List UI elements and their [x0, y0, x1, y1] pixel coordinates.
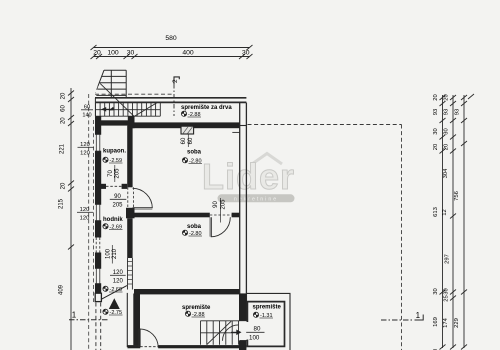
- svg-text:20: 20: [433, 94, 439, 100]
- wall hodnik/soba2 vertical: [127, 218, 132, 258]
- dashed roof outline right: [248, 125, 402, 350]
- dim line 580: [94, 47, 250, 49]
- svg-text:kupaon.: kupaon.: [103, 149, 126, 155]
- svg-text:20: 20: [61, 182, 67, 189]
- walk line diagonals: [100, 84, 134, 117]
- wall soba2/spremiste: [134, 289, 240, 294]
- svg-text:2: 2: [172, 79, 179, 83]
- svg-text:1: 1: [72, 311, 77, 320]
- svg-text:hodnik: hodnik: [103, 217, 123, 223]
- svg-text:174: 174: [443, 317, 449, 327]
- thin hodnik/porch boundary line: [126, 293, 128, 347]
- svg-text:30: 30: [444, 128, 450, 134]
- dim line 20/100/30/400/30: [94, 56, 250, 58]
- svg-text:169: 169: [433, 317, 439, 327]
- dashed wall lines below pier: [95, 303, 97, 350]
- svg-text:409: 409: [59, 284, 65, 295]
- svg-text:spremište za drva: spremište za drva: [181, 105, 232, 111]
- svg-text:120: 120: [80, 150, 90, 156]
- ticks top cluster: [440, 95, 446, 100]
- svg-text:20: 20: [93, 50, 101, 57]
- wall kupaon/soba vertical: [127, 126, 132, 188]
- svg-text:Lider: Lider: [202, 156, 295, 197]
- door leaf soba1->soba2: [209, 217, 211, 236]
- svg-text:400: 400: [182, 50, 194, 57]
- svg-text:221: 221: [60, 143, 66, 154]
- wall soba1/soba2: [133, 213, 210, 218]
- svg-text:soba: soba: [187, 150, 202, 156]
- svg-text:soba: soba: [187, 224, 202, 230]
- svg-text:613: 613: [433, 207, 439, 217]
- svg-text:20: 20: [61, 117, 67, 124]
- svg-text:140: 140: [82, 112, 91, 118]
- entry door D left wall: [94, 238, 102, 253]
- svg-text:30: 30: [433, 128, 439, 134]
- window W3: [94, 268, 102, 284]
- -2.75: [103, 309, 108, 314]
- exit arrow right: [231, 331, 237, 333]
- opening hodnik->spremiste double thin: [127, 258, 129, 290]
- svg-text:93: 93: [433, 109, 439, 115]
- svg-text:93: 93: [444, 109, 450, 115]
- wall pier box bottom left: [95, 293, 101, 301]
- svg-text:215: 215: [59, 198, 65, 209]
- ticks at 213 (12): [450, 214, 456, 219]
- kupaon top wall: [95, 120, 131, 125]
- ticks lower cluster (y 288-302): [440, 290, 446, 295]
- svg-text:210: 210: [112, 248, 118, 259]
- hodnik door jambs / dashed opening: [127, 187, 129, 208]
- svg-text:25: 25: [444, 295, 450, 301]
- svg-text:93: 93: [455, 109, 461, 115]
- svg-text:60: 60: [61, 105, 67, 112]
- svg-text:229: 229: [454, 318, 460, 328]
- entry triangle: [109, 298, 120, 309]
- left wall: [95, 116, 101, 293]
- door leaf hodnik->soba1: [133, 207, 153, 209]
- bottom wall: [128, 345, 247, 348]
- svg-text:120: 120: [80, 215, 90, 221]
- svg-text:spremište: spremište: [253, 305, 282, 311]
- 100/210 rotated entry: [111, 245, 113, 264]
- 90/205 rotated right door: [220, 198, 222, 223]
- top wall double line: [95, 97, 246, 99]
- ticks mid cluster (y 120-151): [440, 118, 446, 123]
- svg-text:30: 30: [242, 50, 250, 57]
- svg-text:90: 90: [213, 201, 219, 208]
- svg-text:30: 30: [433, 288, 439, 294]
- watermark Lider logo: [202, 154, 295, 203]
- svg-text:120: 120: [113, 278, 124, 284]
- svg-text:580: 580: [165, 35, 177, 42]
- svg-text:100: 100: [107, 50, 119, 57]
- 70/205 rotated: [114, 165, 116, 182]
- kupaon bottom wall with door 70: [95, 184, 106, 189]
- svg-text:297: 297: [445, 254, 451, 264]
- window W2 hodnik: [94, 204, 102, 221]
- svg-text:20: 20: [444, 144, 450, 150]
- upper flight: [104, 69, 126, 71]
- spremiste left wall: [133, 294, 140, 346]
- right wall double line: [239, 103, 241, 321]
- lower run treads: [96, 115, 161, 117]
- stair stub wall: [128, 116, 135, 128]
- -2.69 lower: [103, 286, 108, 291]
- svg-text:304: 304: [443, 168, 449, 178]
- svg-text:60: 60: [181, 137, 187, 144]
- svg-text:nekretnine: nekretnine: [234, 197, 278, 203]
- section 1 right: [381, 319, 413, 321]
- svg-text:756: 756: [454, 191, 460, 201]
- svg-text:205: 205: [220, 199, 226, 210]
- svg-text:205: 205: [115, 168, 121, 179]
- svg-text:80: 80: [254, 325, 261, 332]
- section 2 top: [174, 77, 179, 116]
- svg-text:100: 100: [105, 248, 111, 259]
- svg-text:20: 20: [433, 144, 439, 150]
- stair arrow: [103, 108, 114, 110]
- window W1 kupaon: [94, 134, 102, 152]
- svg-text:30: 30: [127, 50, 135, 57]
- svg-text:205: 205: [112, 202, 123, 208]
- svg-text:20: 20: [61, 92, 67, 99]
- svg-text:spremište: spremište: [182, 305, 211, 311]
- svg-text:60: 60: [188, 137, 194, 144]
- spremiste exterior door bottom: [140, 345, 158, 349]
- chimney 60x60: [181, 126, 194, 147]
- wall below spremiste za drva: [131, 122, 240, 128]
- bottom ticks: [440, 345, 446, 350]
- svg-text:30: 30: [444, 288, 450, 294]
- svg-text:70: 70: [108, 170, 114, 177]
- dashed overhang lines left: [89, 86, 174, 350]
- svg-text:20: 20: [444, 94, 450, 100]
- svg-text:12: 12: [442, 209, 448, 215]
- svg-text:1: 1: [416, 311, 421, 320]
- window sill soba1 right wall: [232, 131, 239, 133]
- svg-text:100: 100: [249, 334, 260, 341]
